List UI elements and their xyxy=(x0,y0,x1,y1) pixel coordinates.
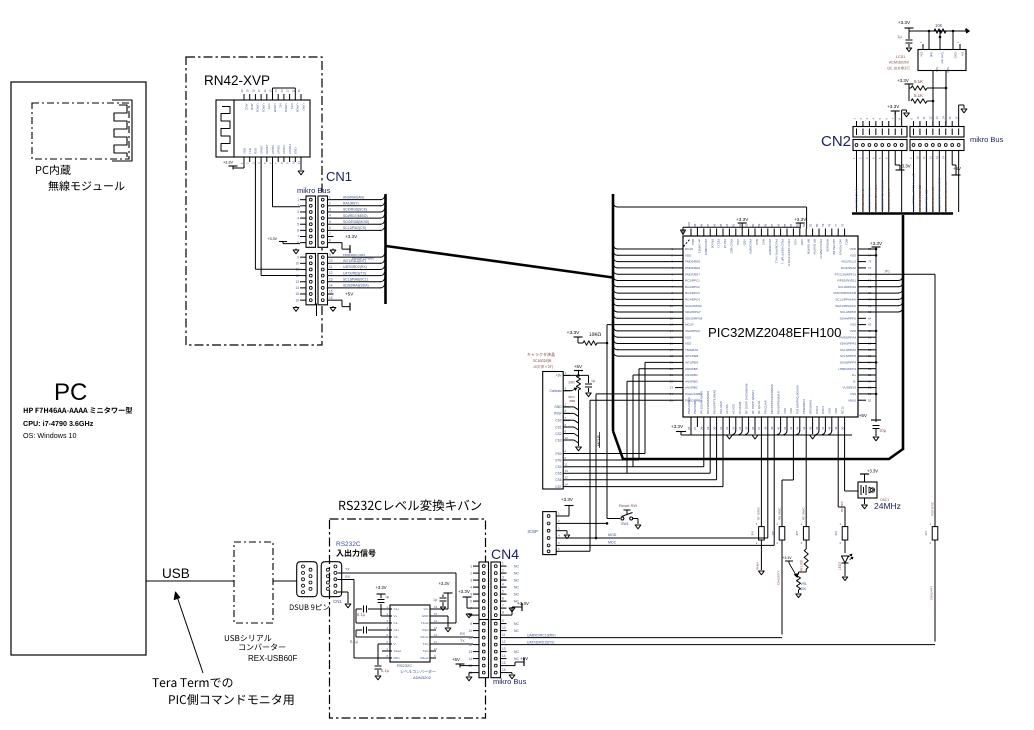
ground OSC xyxy=(862,498,868,509)
svg-text:11: 11 xyxy=(297,161,301,164)
svg-text:10: 10 xyxy=(291,160,295,164)
svg-text:9: 9 xyxy=(470,622,472,626)
power CN4 bottom left 5V xyxy=(452,657,473,668)
svg-text:91: 91 xyxy=(744,223,748,227)
svg-text:UPIO3: UPIO3 xyxy=(256,104,260,113)
svg-text:RB SM/C: RB SM/C xyxy=(778,507,782,520)
svg-text:AN3/RB3: AN3/RB3 xyxy=(685,379,698,383)
svg-text:RC IN/C: RC IN/C xyxy=(840,500,844,512)
svg-text:POR B7/C: POR B7/C xyxy=(931,501,935,516)
svg-text:RPD1/RND11: RPD1/RND11 xyxy=(838,279,857,283)
svg-text:RC1/RPC1: RC1/RPC1 xyxy=(685,279,700,283)
svg-text:PM 8/PP8 MAC8/MA8: PM 8/PP8 MAC8/MA8 xyxy=(770,384,774,414)
svg-text:9: 9 xyxy=(502,619,504,623)
svg-text:11: 11 xyxy=(922,116,926,119)
svg-text:U2RX/RPB14 CC: U2RX/RPB14 CC xyxy=(925,190,929,212)
svg-text:50: 50 xyxy=(840,426,844,430)
svg-text:U2TX/RPG6 NK CC: U2TX/RPG6 NK CC xyxy=(931,187,935,212)
svg-text:mikro Bus: mikro Bus xyxy=(970,135,1004,144)
wire jumper J4 feed xyxy=(838,427,845,522)
svg-text:VSS: VSS xyxy=(736,239,740,245)
svg-text:+5V: +5V xyxy=(574,364,582,369)
svg-text:PM 8/PPT8 8MA8: PM 8/PPT8 8MA8 xyxy=(712,390,716,414)
svg-text:15: 15 xyxy=(329,290,333,294)
power CN4 top left 3.3V xyxy=(458,589,473,608)
svg-text:C1+: C1+ xyxy=(394,607,400,611)
svg-text:SCK2/RPG6 NK: SCK2/RPG6 NK xyxy=(868,188,872,210)
svg-text:36: 36 xyxy=(751,426,755,430)
IC ADM3202 RS232C level converter xyxy=(386,605,438,680)
svg-text:PE1 M: PE1 M xyxy=(723,239,727,249)
resistor 10K MCLR pullup xyxy=(567,330,609,345)
svg-text:SCL1/RPA14/A: SCL1/RPA14/A xyxy=(836,298,856,302)
svg-text:6: 6 xyxy=(502,597,504,601)
svg-text:10K: 10K xyxy=(801,587,808,591)
power rail PIC right 3.3V xyxy=(866,241,883,420)
svg-text:OSC2: OSC2 xyxy=(815,405,819,414)
bus bar CN2 xyxy=(852,212,953,215)
power CN1 bottom right 5V xyxy=(334,291,355,310)
potentiometer VR1 10K xyxy=(783,556,808,598)
svg-text:Cont rast: Cont rast xyxy=(941,52,945,64)
svg-text:VSS: VSS xyxy=(685,335,691,339)
wire JP1 to TX line xyxy=(930,545,936,642)
svg-text:87: 87 xyxy=(770,223,774,227)
svg-text:10: 10 xyxy=(329,259,333,263)
svg-text:81: 81 xyxy=(808,223,812,227)
svg-text:SCL: SCL xyxy=(935,67,939,73)
svg-text:12: 12 xyxy=(329,271,333,275)
svg-text:2: 2 xyxy=(470,571,472,575)
svg-text:33: 33 xyxy=(732,426,736,430)
wires CN2 left to bus xyxy=(852,156,902,212)
svg-text:VSS: VSS xyxy=(794,239,798,245)
svg-text:R1out: R1out xyxy=(420,635,428,639)
svg-text:VDD: VDD xyxy=(742,239,746,246)
svg-text:PC: PC xyxy=(54,379,87,406)
svg-text:CS6: CS6 xyxy=(555,478,561,482)
capacitor C1 0.1u xyxy=(356,606,392,624)
svg-text:EA+: EA+ xyxy=(920,52,924,58)
svg-text:VDD: VDD xyxy=(242,148,246,154)
PC box xyxy=(11,82,146,655)
svg-text:CS7: CS7 xyxy=(555,485,561,489)
svg-text:NC: NC xyxy=(514,571,519,575)
svg-text:GND: GND xyxy=(422,614,430,618)
svg-text:78: 78 xyxy=(828,223,832,227)
svg-text:PGD1/RE1: PGD1/RE1 xyxy=(693,399,697,414)
svg-text:14: 14 xyxy=(502,654,506,658)
wire RN42 RXD to CN1 xyxy=(261,162,300,276)
svg-text:11: 11 xyxy=(291,89,295,92)
svg-text:8BB: 8BB xyxy=(570,399,576,403)
svg-text:45: 45 xyxy=(808,426,812,430)
svg-text:84: 84 xyxy=(789,223,793,227)
svg-text:PAM4: PAM4 xyxy=(756,562,760,570)
wire TX to CN4 xyxy=(430,639,473,644)
svg-text:CN8UMTX: CN8UMTX xyxy=(777,570,781,585)
svg-text:6: 6 xyxy=(470,599,472,603)
svg-text:PM D8/RP8: PM D8/RP8 xyxy=(768,239,772,255)
svg-text:JP3: JP3 xyxy=(834,531,838,536)
svg-text:R2in: R2in xyxy=(394,656,401,660)
svg-text:72: 72 xyxy=(868,266,872,270)
svg-text:REX-USB60F: REX-USB60F xyxy=(248,654,297,663)
wire CN4 RX line xyxy=(506,633,782,637)
svg-text:7: 7 xyxy=(329,232,331,236)
svg-text:SDO2/RPG8 NKMK C: SDO2/RPG8 NKMK C xyxy=(880,179,884,210)
svg-text:77: 77 xyxy=(834,223,838,227)
svg-text:14: 14 xyxy=(565,482,569,486)
svg-text:AIO1: AIO1 xyxy=(244,104,248,111)
svg-text:VDD: VDD xyxy=(800,239,804,246)
power CN1 top right 3.3V xyxy=(334,234,359,253)
svg-text:26: 26 xyxy=(687,426,691,430)
svg-text:73: 73 xyxy=(868,260,872,264)
capacitor LCD 1u xyxy=(585,375,595,396)
svg-text:15: 15 xyxy=(269,89,273,93)
svg-text:RC3/RPC3: RC3/RPC3 xyxy=(685,291,700,295)
svg-text:PM D8/PPG VAL1: PM D8/PPG VAL1 xyxy=(774,239,778,264)
bus diagonal CN1 to PIC xyxy=(386,246,613,278)
svg-text:31: 31 xyxy=(719,426,723,430)
svg-text:TX: TX xyxy=(345,568,350,572)
ground CN4 bottom right xyxy=(506,673,515,679)
svg-text:RF DSPP QMA01: RF DSPP QMA01 xyxy=(751,390,755,414)
svg-text:92: 92 xyxy=(738,223,742,227)
svg-text:90: 90 xyxy=(751,223,755,227)
svg-text:CS4: CS4 xyxy=(555,465,561,469)
wire USB PC to converter xyxy=(146,566,234,581)
svg-text:+5V: +5V xyxy=(520,656,528,661)
svg-text:PM D/WP8: PM D/WP8 xyxy=(749,239,753,254)
svg-text:2: 2 xyxy=(502,569,504,573)
svg-text:RC4/RPC4: RC4/RPC4 xyxy=(685,298,700,302)
power OSC 3.3V xyxy=(860,469,878,483)
ground RN42 xyxy=(298,162,304,175)
svg-text:RN42-XVP: RN42-XVP xyxy=(204,73,270,88)
svg-text:SCK2/RPD10 C: SCK2/RPD10 C xyxy=(887,188,891,210)
svg-text:D-: D- xyxy=(853,379,856,383)
svg-text:SCK/RG6(SCK): SCK/RG6(SCK) xyxy=(343,208,367,212)
svg-text:RESET: RESET xyxy=(265,144,269,154)
svg-text:ICSP: ICSP xyxy=(528,529,539,534)
svg-text:+5V: +5V xyxy=(859,413,868,418)
svg-text:12: 12 xyxy=(295,274,299,278)
svg-text:C1-: C1- xyxy=(394,621,399,625)
svg-text:SCK2/RPG6: SCK2/RPG6 xyxy=(685,304,702,308)
svg-text:PMD3/RPA4: PMD3/RPA4 xyxy=(839,335,856,339)
jumper JP5 xyxy=(795,522,809,545)
svg-text:VDD: VDD xyxy=(685,253,692,257)
svg-text:Reset SW: Reset SW xyxy=(619,503,637,508)
svg-text:10: 10 xyxy=(434,647,438,651)
connector CN1 DSUB board side xyxy=(321,562,342,604)
svg-text:R2out: R2out xyxy=(420,656,428,660)
svg-text:15: 15 xyxy=(948,116,952,120)
svg-text:10: 10 xyxy=(916,116,920,120)
svg-text:12: 12 xyxy=(502,640,506,644)
svg-text:30: 30 xyxy=(712,426,716,430)
wire PIC MCLR pin xyxy=(607,324,675,326)
svg-text:1: 1 xyxy=(470,564,472,568)
svg-text:JP1: JP1 xyxy=(884,270,890,274)
wire RX xyxy=(338,575,387,658)
resistor 5.1K SCL pullup xyxy=(909,88,934,103)
svg-text:11: 11 xyxy=(329,265,333,269)
svg-text:PM D0: PM D0 xyxy=(710,239,714,249)
ground CN2 left top xyxy=(902,110,910,121)
svg-text:+3.3V: +3.3V xyxy=(783,556,793,560)
svg-text:SDO/RG8(MOSI): SDO/RG8(MOSI) xyxy=(343,220,369,224)
svg-text:A1VSS: A1VSS xyxy=(725,404,729,414)
svg-text:PM G D/WD D: PM G D/WD D xyxy=(819,239,823,259)
svg-text:SDA3/RPA3: SDA3/RPA3 xyxy=(840,342,857,346)
svg-text:4: 4 xyxy=(470,585,472,589)
svg-text:UPIO5: UPIO5 xyxy=(277,145,281,154)
bus bottom xyxy=(613,431,903,459)
svg-text:5.1K: 5.1K xyxy=(914,79,923,84)
svg-text:1: 1 xyxy=(329,195,331,199)
svg-text:CS3: CS3 xyxy=(555,438,561,442)
svg-text:InG P8/LB0: InG P8/LB0 xyxy=(832,239,836,255)
svg-text:VUSB3V3: VUSB3V3 xyxy=(842,386,856,390)
wire RN42 TXD to CN1 xyxy=(255,162,300,269)
ground LCD signal rows xyxy=(563,407,581,451)
power PIC top 3.3V B xyxy=(794,217,807,227)
svg-text:10: 10 xyxy=(297,89,301,93)
svg-text:NC: NC xyxy=(514,578,519,582)
RN42 top pins xyxy=(240,88,305,113)
capacitor LCD1 1u xyxy=(897,31,912,52)
svg-text:13: 13 xyxy=(295,280,299,284)
svg-text:CN2: CN2 xyxy=(821,133,851,150)
svg-text:TXD: TXD xyxy=(248,148,252,154)
svg-text:RS232C: RS232C xyxy=(336,541,361,548)
svg-text:UPIO6: UPIO6 xyxy=(271,145,275,154)
svg-text:16: 16 xyxy=(434,605,438,609)
svg-text:5: 5 xyxy=(470,592,472,596)
svg-text:PA 301/4H MA08: PA 301/4H MA08 xyxy=(700,391,704,414)
svg-text:NC: NC xyxy=(514,657,519,661)
label DSUB 9pin xyxy=(290,604,329,610)
svg-text:4: 4 xyxy=(329,214,331,218)
svg-text:10: 10 xyxy=(468,629,472,633)
svg-text:SCL3/RPD10: SCL3/RPD10 xyxy=(838,285,856,289)
svg-text:18: 18 xyxy=(251,89,255,93)
svg-text:19: 19 xyxy=(246,89,250,93)
PC spec text xyxy=(23,407,132,440)
wire jumper J1 feed xyxy=(757,427,762,522)
svg-text:CTS: CTS xyxy=(267,104,271,110)
power LCD1 rail 3.3V xyxy=(898,20,970,33)
svg-text:AN5/RB5: AN5/RB5 xyxy=(685,367,698,371)
svg-text:11: 11 xyxy=(469,636,473,640)
svg-text:an-14/RE1: an-14/RE1 xyxy=(698,239,702,254)
wire OSC feed xyxy=(840,427,858,512)
svg-text:RG14/PE8/MA08: RG14/PE8/MA08 xyxy=(706,391,710,414)
svg-text:39: 39 xyxy=(770,426,774,430)
svg-text:MCLR: MCLR xyxy=(685,323,694,327)
grounds PIC bottom xyxy=(726,427,815,439)
svg-text:A1VDD: A1VDD xyxy=(732,403,736,414)
svg-text:14: 14 xyxy=(468,657,472,661)
RN42 bottom pins xyxy=(240,144,301,164)
switch SW1 reset xyxy=(607,503,638,526)
capacitor C2 0.1u xyxy=(350,627,392,644)
wire ICSP MCLR xyxy=(563,522,608,525)
svg-text:CS0: CS0 xyxy=(555,419,561,423)
svg-text:32: 32 xyxy=(725,426,729,430)
svg-text:OS: Windows 10: OS: Windows 10 xyxy=(23,431,77,440)
svg-text:VSS: VSS xyxy=(850,253,856,257)
connector CN4 mikroBUS top xyxy=(470,546,519,620)
PC internal wireless module xyxy=(32,103,129,191)
svg-text:MCC: MCC xyxy=(608,540,617,544)
svg-text:LED3: LED3 xyxy=(838,562,842,570)
svg-text:5: 5 xyxy=(329,220,331,224)
svg-text:NC: NC xyxy=(514,650,519,654)
svg-text:RPB14/RB14 C: RPB14/RB14 C xyxy=(861,188,865,210)
svg-text:13: 13 xyxy=(434,626,438,630)
svg-text:VDD: VDD xyxy=(850,247,857,251)
svg-text:96: 96 xyxy=(712,223,716,227)
svg-text:VR1: VR1 xyxy=(801,582,807,586)
svg-text:15: 15 xyxy=(434,612,438,616)
svg-text:3: 3 xyxy=(297,210,299,214)
svg-text:14: 14 xyxy=(295,286,299,290)
svg-text:CS5: CS5 xyxy=(555,472,561,476)
svg-text:NC: NC xyxy=(514,592,519,596)
svg-text:7: 7 xyxy=(297,235,299,239)
connector CN2 left header xyxy=(821,118,907,157)
svg-text:RPE8/D8: RPE8/D8 xyxy=(826,239,830,252)
svg-text:RA2: RA2 xyxy=(755,239,759,245)
svg-text:V+: V+ xyxy=(394,614,398,618)
svg-text:PMA14/RE0: PMA14/RE0 xyxy=(687,397,691,414)
svg-text:38: 38 xyxy=(764,426,768,430)
svg-text:NC: NC xyxy=(514,622,519,626)
svg-text:100: 100 xyxy=(687,222,691,227)
svg-text:13: 13 xyxy=(329,277,333,281)
svg-text:+3.3V: +3.3V xyxy=(567,330,580,336)
svg-text:VDD: VDD xyxy=(834,407,838,414)
svg-text:T2out: T2out xyxy=(394,649,402,653)
svg-text:10: 10 xyxy=(565,436,569,440)
svg-text:13: 13 xyxy=(468,650,472,654)
svg-text:16: 16 xyxy=(502,668,506,672)
svg-text:49: 49 xyxy=(834,426,838,430)
CN1 bus wires top xyxy=(334,195,385,230)
svg-text:5: 5 xyxy=(297,222,299,226)
svg-text:12: 12 xyxy=(286,89,290,93)
svg-text:TX: TX xyxy=(460,639,465,643)
power CN2 3.3V top xyxy=(887,104,900,121)
svg-text:SDA5/RPF4: SDA5/RPF4 xyxy=(840,361,857,365)
svg-text:UPIO2: UPIO2 xyxy=(261,104,265,113)
svg-text:SW1: SW1 xyxy=(621,522,629,526)
svg-text:+3.3V: +3.3V xyxy=(870,241,883,246)
svg-text:U4RX/RD2(RX): U4RX/RD2(RX) xyxy=(343,265,367,269)
svg-text:14: 14 xyxy=(942,116,946,120)
svg-text:RF DIR/C: RF DIR/C xyxy=(757,506,761,520)
svg-text:RF QUA0: RF QUA0 xyxy=(757,401,761,414)
CN4 right NC labels xyxy=(514,564,519,661)
svg-text:RG1: RG1 xyxy=(845,239,849,246)
svg-text:93: 93 xyxy=(732,223,736,227)
svg-text:28: 28 xyxy=(700,426,704,430)
svg-text:48: 48 xyxy=(828,426,832,430)
bus bar PIC left xyxy=(612,194,615,431)
svg-text:RA1(RST): RA1(RST) xyxy=(343,202,359,206)
svg-text:VDD: VDD xyxy=(850,329,857,333)
svg-text:RG2/SCL2: RG2/SCL2 xyxy=(841,260,856,264)
svg-text:+3.3V: +3.3V xyxy=(671,424,684,429)
svg-text:INT2/RE9: INT2/RE9 xyxy=(685,361,699,365)
PIC top pins xyxy=(687,222,849,266)
svg-text:RP G/HP04: RP G/HP04 xyxy=(813,239,817,255)
svg-text:PMCS/RPD9/CB: PMCS/RPD9/CB xyxy=(833,291,856,295)
svg-text:RX: RX xyxy=(345,575,351,579)
PC module antenna xyxy=(112,100,132,161)
svg-text:RP G8/P08: RP G8/P08 xyxy=(806,239,810,254)
svg-text:43: 43 xyxy=(796,426,800,430)
svg-text:4: 4 xyxy=(297,216,299,220)
svg-text:8PD2/MA1: 8PD2/MA1 xyxy=(808,399,812,414)
svg-text:89: 89 xyxy=(757,223,761,227)
svg-text:JP1: JP1 xyxy=(924,531,928,536)
power Vcc ADM3202 xyxy=(430,581,453,610)
svg-text:INT1/RE8: INT1/RE8 xyxy=(685,354,699,358)
svg-text:+3.3V: +3.3V xyxy=(794,217,807,222)
connector CN2 right header xyxy=(909,116,1003,156)
svg-text:94: 94 xyxy=(725,223,729,227)
svg-text:AN9/RB9 CN AN: AN9/RB9 CN AN xyxy=(855,187,859,210)
svg-text:+3.3V: +3.3V xyxy=(887,104,900,109)
svg-text:UPIO5: UPIO5 xyxy=(273,104,277,113)
svg-text:PS0: PS0 xyxy=(555,452,561,456)
svg-text:RXD: RXD xyxy=(254,148,258,154)
bus bar CN1 xyxy=(384,194,387,304)
jumper JP1 body xyxy=(924,522,938,545)
wire ICSP PGC xyxy=(563,540,774,545)
svg-text:PM D 1/EPP 8YW 8: PM D 1/EPP 8YW 8 xyxy=(787,239,791,266)
svg-text:16: 16 xyxy=(954,116,958,120)
svg-text:RC SM/C: RC SM/C xyxy=(802,507,806,521)
ground ADM3202 GND pin xyxy=(430,616,451,632)
svg-text:SDO2/RPG8: SDO2/RPG8 xyxy=(685,316,703,320)
svg-text:AIO0: AIO0 xyxy=(250,104,254,111)
PIC right pins xyxy=(833,247,871,402)
svg-text:5.1K: 5.1K xyxy=(914,93,923,98)
svg-text:PM D WE1: PM D WE1 xyxy=(730,239,734,254)
svg-text:23: 23 xyxy=(670,386,674,390)
wire DSUB pin5 ground xyxy=(338,592,351,608)
svg-text:16: 16 xyxy=(295,298,299,302)
svg-text:VSS: VSS xyxy=(850,323,856,327)
svg-text:20: 20 xyxy=(240,89,244,93)
wire jumper J2 feed xyxy=(778,427,794,522)
svg-text:VSS: VSS xyxy=(850,392,856,396)
svg-text:CS1: CS1 xyxy=(555,425,561,429)
svg-text:SDA3/RA3(SDA): SDA3/RA3(SDA) xyxy=(343,284,369,288)
svg-text:8: 8 xyxy=(329,238,331,242)
power CN4 top right 3.3V xyxy=(506,601,529,615)
capacitor C3 0.1u on V- xyxy=(375,644,393,680)
svg-text:2: 2 xyxy=(329,201,331,205)
svg-text:+5V: +5V xyxy=(556,374,563,378)
svg-text:SDI2/RPG7: SDI2/RPG7 xyxy=(685,310,701,314)
